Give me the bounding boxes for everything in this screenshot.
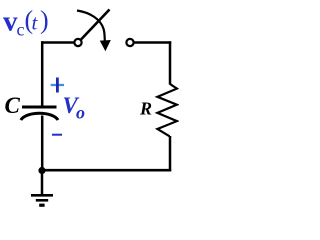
wire right vertical (bottom): [169, 136, 172, 171]
switch right terminal: [126, 39, 133, 46]
svg-text:o: o: [76, 102, 85, 122]
resistor R: [157, 84, 177, 136]
plus sign: [51, 78, 64, 93]
ground stem: [41, 172, 44, 195]
svg-text:C: C: [5, 93, 21, 118]
wire bottom horizontal: [42, 169, 171, 172]
junction node: [38, 167, 45, 174]
wire left vertical (top): [41, 41, 44, 107]
svg-text:): ): [40, 6, 49, 35]
wire top-right horizontal: [134, 41, 172, 44]
svg-text:R: R: [139, 99, 152, 119]
switch left terminal: [74, 39, 81, 46]
node vc(t) label: [3, 5, 49, 39]
capacitor C bottom plate (curved): [21, 113, 58, 120]
label Vo: [63, 93, 86, 122]
switch blade: [81, 10, 110, 40]
ground symbol: [31, 195, 53, 205]
minus sign: [52, 134, 62, 136]
wire top-left horizontal: [41, 41, 74, 44]
svg-text:c: c: [17, 20, 25, 40]
wire left vertical (below capacitor): [41, 116, 44, 172]
wire right vertical (top): [169, 41, 172, 84]
switch closing arrow: [77, 11, 111, 52]
capacitor C top plate: [22, 106, 57, 109]
svg-text:t: t: [32, 11, 39, 35]
